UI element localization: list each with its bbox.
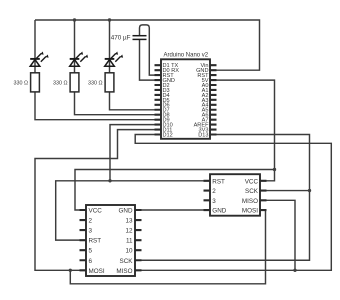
svg-text:12: 12 (125, 228, 133, 235)
wire MOSI net D11 (35, 130, 155, 271)
svg-text:GND: GND (212, 208, 226, 215)
pins right stubs U2 (260, 181, 267, 210)
pins left stubs U3 (80, 210, 87, 270)
pins left stubs U2 (204, 181, 211, 210)
resistor R1 330 (31, 73, 40, 92)
svg-text:MISO: MISO (242, 198, 258, 205)
svg-text:RST: RST (89, 238, 102, 245)
wire LED1 column (35, 20, 155, 120)
wire MISO net D12 (135, 135, 331, 271)
wire SCK net D13 (142, 135, 310, 261)
svg-text:3: 3 (212, 198, 216, 205)
svg-text:MISO: MISO (116, 268, 132, 275)
node junction MOSI (69, 269, 72, 272)
svg-text:6: 6 (89, 258, 93, 265)
wire 5V branch to VCC (75, 170, 275, 211)
pins right stubs U3 (135, 210, 142, 270)
LED D1 (30, 54, 46, 67)
wire capacitor to GND (140, 40, 155, 81)
svg-text:2: 2 (89, 218, 93, 225)
pin labels U1 right (194, 63, 210, 138)
svg-text:5: 5 (89, 248, 93, 255)
wire MISO branch (260, 200, 295, 270)
op-amp U3 ATtiny target (80, 205, 142, 276)
svg-text:330 Ω: 330 Ω (88, 81, 103, 87)
wire capacitor to RST (140, 25, 155, 75)
node junction rail LED3 (108, 18, 111, 21)
svg-text:11: 11 (126, 238, 133, 245)
svg-text:VCC: VCC (245, 178, 259, 185)
wire GND bottom (142, 209, 204, 211)
wire RST net main (56, 181, 204, 240)
wire SCK branch (260, 190, 310, 192)
svg-text:330 Ω: 330 Ω (13, 81, 28, 87)
node junction RST D10 (108, 179, 111, 182)
svg-text:VCC: VCC (89, 208, 103, 215)
svg-text:10: 10 (125, 248, 133, 255)
svg-text:MOSI: MOSI (89, 268, 105, 275)
wire GND top rail (35, 20, 260, 70)
svg-text:SCK: SCK (245, 188, 259, 195)
op-amp U2 ISP header (204, 174, 267, 216)
resistor R3 330 (105, 73, 114, 92)
node junction rail LED2 (73, 18, 76, 21)
svg-text:470 µF: 470 µF (111, 35, 131, 42)
LED D2 (70, 54, 86, 67)
svg-text:3: 3 (89, 228, 93, 235)
svg-text:13: 13 (125, 218, 133, 225)
node junction MISO (293, 269, 296, 272)
node junction 5V VCC (273, 168, 276, 171)
svg-text:SCK: SCK (120, 258, 134, 265)
node junction SCK (308, 189, 311, 192)
wire RST net D10 (110, 125, 155, 181)
capacitor C1 470uF plates (133, 36, 147, 40)
svg-text:MOSI: MOSI (242, 208, 258, 215)
op-amp U1 Arduino Nano v2 (155, 53, 217, 139)
pin labels U1 left (163, 63, 180, 138)
svg-text:2: 2 (212, 188, 216, 195)
LED D3 (105, 54, 121, 67)
wire LED2 column (75, 20, 155, 115)
wire 5V net (216, 80, 275, 181)
svg-text:330 Ω: 330 Ω (53, 81, 68, 87)
svg-text:Arduino Nano v2: Arduino Nano v2 (163, 53, 208, 59)
svg-text:D13: D13 (198, 132, 208, 138)
wire LED3 column (110, 20, 155, 110)
svg-text:GND: GND (119, 208, 133, 215)
svg-text:D12: D12 (163, 132, 173, 138)
resistor R2 330 (70, 73, 79, 92)
wire MOSI branch (70, 210, 265, 284)
svg-text:RST: RST (212, 178, 225, 185)
pins left stubs U1 (155, 65, 217, 134)
